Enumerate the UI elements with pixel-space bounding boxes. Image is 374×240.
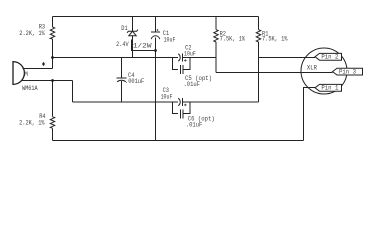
label mic plus	[42, 62, 45, 66]
wire mic minus lead	[22, 80, 73, 82]
svg-text:WM61A: WM61A	[22, 85, 38, 92]
svg-text:.001uF: .001uF	[125, 78, 145, 85]
wire mic plus lead	[23, 68, 53, 70]
wire mic minus drop	[72, 81, 74, 103]
wire top rail	[53, 16, 259, 18]
svg-text:10uF: 10uF	[161, 93, 173, 100]
wire ground rail	[53, 140, 304, 142]
wire pin3 line	[216, 72, 333, 74]
label C3 polarity	[184, 104, 186, 106]
svg-text:.01uF: .01uF	[186, 122, 203, 129]
microphone M1 body	[13, 62, 24, 85]
resistor R4	[50, 117, 54, 129]
label C1 polarity	[157, 29, 159, 31]
wire C5 branch left	[173, 58, 179, 70]
svg-text:.01uF: .01uF	[184, 81, 201, 88]
label C2 polarity	[184, 59, 186, 61]
wire mic- rail	[73, 101, 179, 103]
capacitor C1	[151, 32, 160, 39]
wire C6 branch left	[173, 102, 179, 114]
wire C2 to R2 node	[183, 57, 216, 59]
svg-text:XLR: XLR	[307, 65, 317, 72]
capacitor C3	[178, 98, 183, 106]
wire R2 bottom	[215, 42, 217, 73]
wire C5 branch right	[183, 58, 190, 70]
wire XLR ground drop	[304, 88, 316, 141]
XLR connector circle	[301, 48, 347, 94]
svg-text:Pin 2: Pin 2	[321, 53, 338, 60]
wire C4 bottom	[121, 81, 123, 102]
wire R4 bottom	[52, 128, 54, 140]
svg-text:1/2W: 1/2W	[133, 42, 152, 49]
wire pin2 line	[259, 57, 316, 59]
resistor R1	[256, 30, 260, 42]
XLR pin 2 tab	[315, 53, 342, 60]
svg-text:7.5K, 1%: 7.5K, 1%	[220, 36, 246, 43]
wire R3 top	[52, 17, 54, 28]
svg-text:2.2K, 1%: 2.2K, 1%	[19, 120, 45, 127]
svg-text:10uF: 10uF	[164, 37, 176, 44]
zener diode D1	[127, 30, 138, 36]
wire D1 bottom	[132, 36, 134, 58]
wire C6 branch right	[183, 102, 190, 114]
capacitor C4	[117, 78, 127, 82]
svg-text:7.5K, 1%: 7.5K, 1%	[262, 36, 288, 43]
svg-text:2.2K, 1%: 2.2K, 1%	[19, 30, 45, 37]
wire R1 top	[258, 17, 260, 30]
wire R2 top	[215, 17, 217, 30]
wire C1 top	[155, 17, 157, 33]
node box corner junction	[154, 49, 157, 52]
wire ground column	[155, 38, 157, 141]
wire R4 top	[52, 81, 54, 117]
resistor R2	[214, 30, 218, 42]
wire R3 bottom to mic+ node	[52, 39, 54, 69]
svg-text:Pin 1: Pin 1	[321, 85, 338, 92]
XLR pin 3 tab	[333, 68, 363, 75]
svg-text:10uF: 10uF	[184, 50, 196, 57]
svg-text:D1: D1	[121, 25, 128, 32]
wire D1 top	[132, 17, 134, 32]
capacitor C2	[178, 54, 183, 62]
wire C3 to R1 corner	[183, 101, 259, 103]
XLR pin 1 tab	[315, 84, 342, 91]
svg-text:2.4V: 2.4V	[116, 41, 129, 48]
wire R1 bottom	[258, 42, 260, 102]
capacitor C5	[180, 65, 183, 74]
resistor R3	[50, 27, 54, 39]
wire mic+ rail	[53, 57, 179, 59]
wire C4 top	[121, 58, 123, 79]
svg-text:M: M	[24, 71, 28, 78]
box around 1/2W label	[132, 40, 156, 51]
svg-text:Pin 3: Pin 3	[339, 68, 356, 75]
node mic- junction	[51, 79, 54, 82]
node mic+ junction	[51, 56, 54, 59]
capacitor C6	[180, 110, 183, 119]
